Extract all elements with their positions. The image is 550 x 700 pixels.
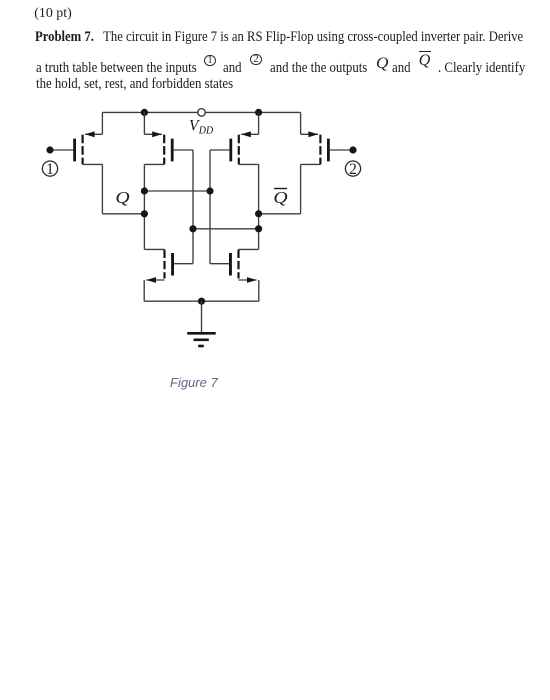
node Qbar junction dot (Qbar to left-gate wire) (255, 225, 262, 232)
text line: statement line 2 (with inline circled inputs and outputs) (36, 60, 197, 75)
label node Qbar (273, 188, 287, 207)
text line: statement line 3 (36, 76, 233, 91)
node junction dot on right-gate vertical (206, 187, 213, 194)
svg-text:2: 2 (349, 161, 357, 178)
ground symbol (187, 301, 216, 346)
node Q junction dot (Q to right-gate wire) (141, 187, 148, 194)
wire left cross-coupling vertical (gates of left inverter) (192, 150, 194, 264)
wire Q to right gates (144, 190, 210, 192)
transistor M4 (outer-right PMOS, input 2) (259, 112, 353, 213)
figure caption: Figure 7 (170, 376, 218, 389)
svg-text:Q: Q (273, 188, 287, 207)
inline circled 2 (250, 54, 262, 66)
node Qbar junction dot (outer-right source tie) (255, 210, 262, 217)
node Q junction dot (outer-left source tie) (141, 210, 148, 217)
wire VDD rail (102, 111, 300, 113)
inline italic Q (376, 56, 388, 72)
label circled 1 (42, 161, 57, 178)
text line: Problem 7 statement line 1 (35, 29, 523, 44)
svg-text:1: 1 (46, 161, 54, 178)
label circled 2 (345, 161, 360, 178)
power VDD node (198, 109, 206, 117)
transistor M3 (inner-right PMOS) (210, 112, 259, 249)
text line: (10 pt) (34, 7, 71, 21)
node input 1 dot (46, 146, 53, 153)
svg-text:Q: Q (115, 188, 129, 207)
node rail-left junction dot (141, 109, 148, 116)
wire Qbar to left gates (193, 228, 259, 230)
transistor M6 (right NMOS) (210, 249, 259, 301)
node ground junction dot (198, 298, 205, 305)
transistor M5 (left NMOS) (144, 249, 193, 301)
wire bottom rail to ground (144, 300, 259, 302)
transistor M1 (outer-left PMOS, input 1) (50, 112, 144, 213)
inline italic Q-bar (419, 51, 431, 69)
node input 2 dot (349, 146, 356, 153)
label VDD (189, 118, 213, 137)
node rail-right junction dot (255, 109, 262, 116)
inline circled 1 (204, 55, 216, 67)
node junction dot on left-gate vertical (189, 225, 196, 232)
svg-text:DD: DD (198, 125, 213, 137)
wire right cross-coupling vertical (gates of right inverter) (209, 150, 211, 264)
transistor M2 (inner-left PMOS) (144, 112, 193, 249)
